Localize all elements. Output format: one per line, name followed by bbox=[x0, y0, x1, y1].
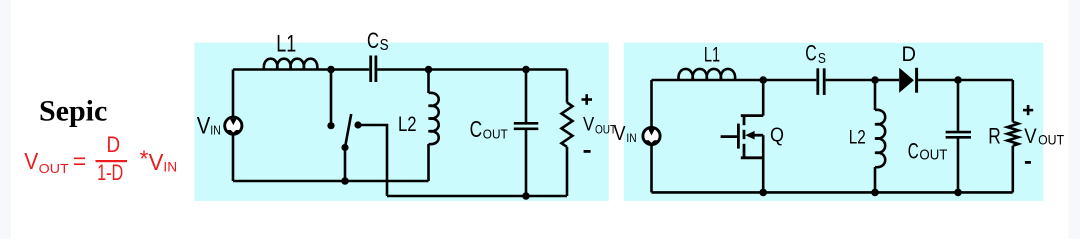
label Cout (left) bbox=[470, 116, 508, 142]
switch pivot dot bbox=[341, 144, 348, 151]
svg-text:=: = bbox=[73, 148, 86, 174]
svg-text:IN: IN bbox=[163, 158, 177, 174]
wire ground rail bbox=[233, 180, 429, 183]
wire Vin vertical top (right) bbox=[650, 80, 653, 127]
source Vin (right) bbox=[643, 127, 660, 144]
wire mosfet drain bbox=[762, 80, 765, 116]
svg-text:S: S bbox=[818, 50, 826, 67]
svg-text:OUT: OUT bbox=[483, 127, 508, 142]
svg-text:V: V bbox=[583, 114, 594, 135]
label Cs (left) bbox=[367, 28, 389, 54]
switch contact dot left bbox=[327, 122, 334, 129]
wire top rail Cs to resistor corner bbox=[377, 68, 567, 71]
svg-text:C: C bbox=[805, 40, 817, 65]
node B junction dot (right) bbox=[871, 76, 879, 84]
wire top rail Cs to diode bbox=[826, 79, 899, 82]
plus sign (left output) bbox=[582, 94, 593, 105]
switch blade bbox=[345, 114, 351, 148]
node B junction dot (left) bbox=[425, 66, 433, 74]
wire top rail diode to resistor corner bbox=[918, 79, 1013, 82]
wire Cout vertical top (right) bbox=[957, 80, 960, 131]
inductor L1 (right) bbox=[678, 69, 735, 80]
svg-text:V: V bbox=[197, 112, 211, 139]
svg-text:V: V bbox=[614, 123, 626, 145]
svg-text:L2: L2 bbox=[849, 126, 866, 148]
label Vout (left) bbox=[583, 114, 616, 136]
svg-text:*: * bbox=[140, 146, 149, 172]
wire switch output to lower rail bbox=[361, 125, 387, 196]
wire ground rail (right) bbox=[652, 191, 1013, 194]
wire load resistor bottom (right) bbox=[1011, 146, 1014, 193]
svg-text:1-D: 1-D bbox=[97, 160, 123, 185]
junction dot Cout top (right) bbox=[954, 76, 962, 84]
wire load resistor top (right) bbox=[1011, 80, 1014, 122]
capacitor Cout (right) bbox=[946, 132, 971, 137]
resistor R bbox=[1007, 122, 1018, 146]
svg-text:V: V bbox=[149, 149, 164, 175]
node A junction dot (left) bbox=[327, 66, 335, 74]
source Vin (left) bbox=[225, 117, 242, 134]
inductor L2 (left) bbox=[429, 93, 439, 144]
svg-text:C: C bbox=[470, 116, 483, 142]
minus sign (right output) bbox=[1025, 161, 1031, 164]
capacitor Cs (right) bbox=[818, 68, 824, 95]
wire L2 top (right) bbox=[874, 80, 877, 110]
diode D bbox=[899, 68, 916, 93]
label Cout (right) bbox=[908, 138, 948, 163]
wire mosfet source vertical bbox=[762, 135, 765, 192]
right margin strip bbox=[1069, 0, 1080, 239]
panel 1 background bbox=[194, 43, 608, 201]
left margin strip bbox=[0, 0, 11, 239]
svg-text:S: S bbox=[380, 37, 389, 54]
svg-text:Sepic: Sepic bbox=[39, 95, 107, 128]
wire load resistor top bbox=[566, 70, 569, 103]
svg-text:V: V bbox=[1024, 124, 1037, 148]
svg-text:D: D bbox=[902, 43, 917, 66]
minus sign (left output) bbox=[584, 150, 591, 153]
wire Cout vertical top bbox=[525, 70, 528, 123]
capacitor Cout (left) bbox=[514, 123, 539, 129]
svg-text:IN: IN bbox=[626, 133, 636, 145]
formula Vout = D/(1-D) * Vin bbox=[24, 132, 177, 185]
wire top rail left of L1 bbox=[233, 68, 264, 71]
svg-text:OUT: OUT bbox=[1038, 131, 1064, 147]
svg-text:OUT: OUT bbox=[919, 146, 947, 163]
junction dot mosfet source ground bbox=[759, 189, 767, 197]
svg-text:D: D bbox=[107, 132, 121, 157]
junction dot Cout top (left) bbox=[522, 66, 530, 74]
wire top rail under L1 to Cs bbox=[264, 68, 369, 71]
junction dot Cout ground (right) bbox=[954, 189, 962, 197]
wire Vin vertical bottom (right) bbox=[650, 145, 653, 193]
svg-text:OUT: OUT bbox=[39, 161, 69, 176]
inductor L1 (left) bbox=[264, 59, 318, 70]
wire load resistor bottom bbox=[566, 147, 569, 196]
mosfet arrow bbox=[745, 131, 754, 140]
junction dot Cout bottom (left) bbox=[522, 192, 530, 200]
wire Cout vertical bottom bbox=[525, 130, 528, 196]
wire L2 top bbox=[427, 70, 430, 94]
junction dot switch ground (left) bbox=[341, 177, 349, 185]
svg-text:IN: IN bbox=[210, 122, 221, 137]
inductor L2 (right) bbox=[875, 110, 885, 167]
wire Cout vertical bottom (right) bbox=[957, 138, 960, 192]
capacitor Cs (left) bbox=[371, 56, 376, 83]
wire Vin vertical top bbox=[232, 70, 235, 118]
label Cs (right) bbox=[805, 40, 826, 67]
svg-text:L1: L1 bbox=[276, 30, 296, 57]
node A junction dot (right) bbox=[759, 76, 767, 84]
wire switch pivot stem bbox=[344, 150, 347, 181]
wire lower output rail bbox=[387, 195, 567, 198]
label Vin (right) bbox=[614, 123, 637, 145]
load resistor (left) bbox=[562, 103, 573, 147]
wire top rail Vin corner to Cs bbox=[652, 79, 817, 82]
svg-text:C: C bbox=[908, 138, 919, 163]
junction dot L2 ground (right) bbox=[871, 189, 879, 197]
svg-text:V: V bbox=[24, 148, 39, 174]
wire L2 bottom (right) bbox=[874, 167, 877, 192]
switch contact dot right bbox=[354, 121, 361, 128]
panel 2 background bbox=[624, 43, 1043, 201]
label Vout (right) bbox=[1024, 124, 1064, 148]
svg-text:C: C bbox=[367, 28, 379, 53]
svg-text:L1: L1 bbox=[704, 44, 720, 67]
wire switch stem from node A bbox=[330, 70, 333, 123]
svg-text:L2: L2 bbox=[398, 113, 417, 136]
transistor Q1 mosfet bbox=[721, 116, 764, 158]
wire Vin vertical bottom bbox=[232, 134, 235, 181]
wire L2 bottom bbox=[427, 144, 430, 181]
plus sign (right output) bbox=[1023, 105, 1033, 115]
svg-text:Q: Q bbox=[770, 124, 784, 147]
svg-text:R: R bbox=[988, 123, 1001, 148]
label Vin (left) bbox=[197, 112, 221, 139]
